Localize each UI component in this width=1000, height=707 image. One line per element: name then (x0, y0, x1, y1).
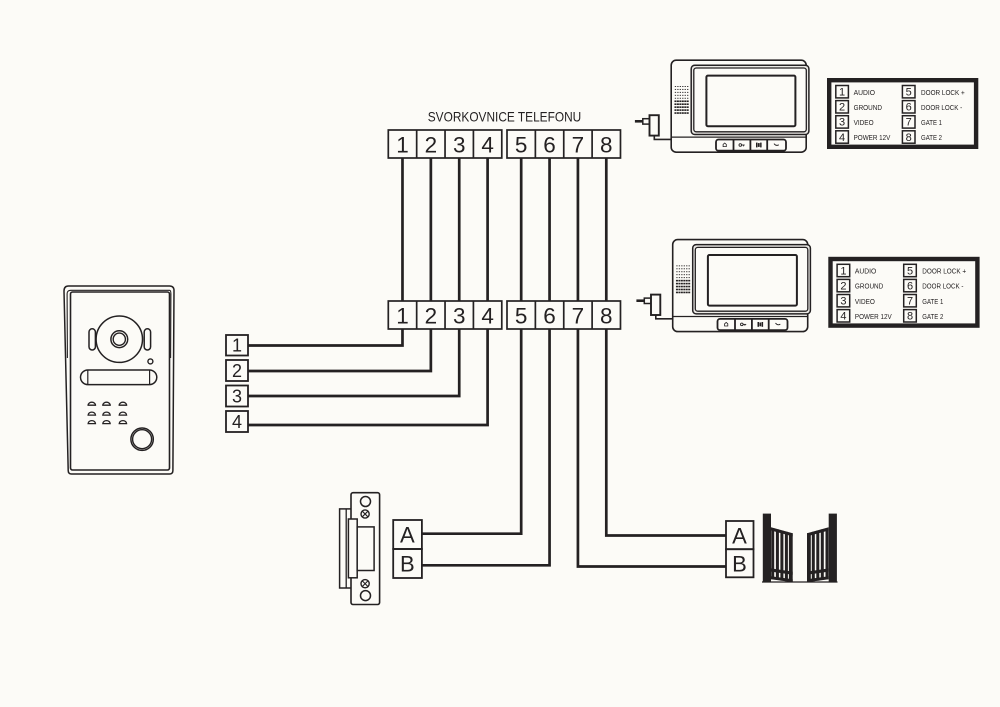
power adapter plug for monitor M1 (top) (635, 115, 659, 135)
gate: left leaf (771, 527, 793, 582)
svg-text:SVORKOVNICE TELEFONU: SVORKOVNICE TELEFONU (428, 110, 582, 125)
svg-text:8: 8 (600, 132, 613, 157)
monitor M2 (bottom): button icon key (741, 323, 747, 326)
door station left side slot (89, 329, 95, 350)
gate: right leaf (807, 527, 829, 582)
junction box 1 (door station terminal 1) (226, 335, 248, 356)
svg-text:2: 2 (840, 280, 846, 292)
wire bus terminal 4 (TB1 to TB2) (486, 158, 489, 301)
wire bus terminal 7 (TB1 to TB2) (577, 158, 580, 301)
svg-text:7: 7 (906, 117, 912, 129)
svg-text:5: 5 (907, 265, 913, 277)
svg-text:1: 1 (396, 132, 409, 157)
svg-text:4: 4 (839, 132, 845, 144)
door station outdoor unit: hood outline (64, 286, 174, 474)
legend L2 (bottom): pin 4 POWER 12V (837, 310, 892, 323)
monitor M1 (top): screen bezel (691, 65, 809, 134)
gate: right post (829, 514, 837, 583)
door station speaker holes 3x3 (88, 402, 127, 423)
door station front panel (71, 292, 170, 470)
svg-text:4: 4 (481, 303, 494, 328)
door station call button (131, 428, 153, 450)
svg-text:1: 1 (232, 336, 242, 356)
wire terminal 5 to door-lock A (422, 329, 521, 534)
junction box 4 (door station terminal 4) (226, 411, 248, 432)
monitor M1 (top): body (671, 60, 806, 152)
svg-text:6: 6 (543, 303, 556, 328)
svg-text:AUDIO: AUDIO (855, 267, 877, 276)
door-lock terminal box A (393, 520, 422, 549)
door-lock strike: left stack inner line (345, 509, 347, 588)
legend table L2 (bottom): frame (831, 259, 978, 326)
terminal block TB1 (top) cells 1-4 (388, 130, 501, 158)
svg-text:B: B (400, 552, 415, 577)
door-lock strike: bottom hole (361, 591, 371, 601)
legend L1 (top): pin 8 GATE 2 (902, 131, 942, 144)
legend L2 (bottom): pin 8 GATE 2 (904, 310, 944, 323)
monitor M2 (bottom): button strip (718, 319, 788, 330)
svg-text:GROUND: GROUND (854, 103, 883, 112)
svg-text:GROUND: GROUND (855, 282, 884, 291)
svg-text:8: 8 (907, 311, 913, 323)
wire bus terminal 2 (TB1 to TB2) (430, 158, 433, 301)
svg-text:GATE 1: GATE 1 (921, 118, 942, 127)
legend L2 (bottom): pin 1 AUDIO (837, 264, 876, 277)
svg-text:GATE 1: GATE 1 (922, 297, 943, 306)
svg-text:6: 6 (907, 280, 913, 292)
svg-text:A: A (400, 523, 415, 548)
monitor M1 (top): speaker grille (674, 86, 688, 114)
svg-text:A: A (732, 523, 747, 548)
door station LED dot (148, 359, 153, 364)
door-lock strike: top screw (361, 510, 369, 518)
junction box 3 (door station terminal 3) (226, 386, 248, 407)
svg-text:8: 8 (906, 132, 912, 144)
door station name plate window lines (87, 370, 89, 385)
monitor M2 (bottom): button icon bell (725, 322, 728, 326)
svg-text:4: 4 (232, 412, 242, 432)
wire terminal 4 to door-station box 4 (248, 329, 488, 425)
door station camera ring (96, 316, 142, 362)
monitor M2 (bottom): screen bezel (693, 245, 811, 314)
monitor M2 (bottom): button icon phone (776, 323, 781, 325)
svg-text:1: 1 (840, 265, 846, 277)
svg-text:6: 6 (906, 102, 912, 114)
wire terminal 2 to door-station box 2 (248, 329, 431, 371)
svg-text:7: 7 (572, 303, 585, 328)
svg-text:4: 4 (481, 132, 494, 157)
svg-text:DOOR LOCK -: DOOR LOCK - (921, 103, 963, 112)
svg-text:DOOR LOCK +: DOOR LOCK + (921, 88, 965, 97)
monitor M2 (bottom): screen (708, 255, 797, 306)
door-lock strike: keeper latch (348, 519, 357, 578)
svg-text:2: 2 (839, 102, 845, 114)
legend L2 (bottom): pin 3 VIDEO (837, 295, 875, 308)
svg-text:DOOR LOCK +: DOOR LOCK + (922, 267, 966, 276)
monitor M1 (top): button icon speak (756, 143, 762, 148)
svg-text:8: 8 (600, 303, 613, 328)
monitor M1 (top): button icon phone (774, 144, 779, 146)
door-lock strike: top hole (361, 497, 371, 507)
svg-text:POWER 12V: POWER 12V (855, 312, 892, 321)
wire terminal 7 to gate B (578, 329, 726, 567)
svg-text:2: 2 (425, 132, 438, 157)
wire bus terminal 8 (TB1 to TB2) (605, 158, 608, 301)
gate: ground line (762, 581, 838, 583)
svg-text:5: 5 (515, 303, 528, 328)
monitor M2 (bottom): body (673, 240, 808, 332)
monitor M2 (bottom): body seam (673, 316, 808, 318)
junction box 2 (door station terminal 2) (226, 360, 248, 381)
wire terminal 6 to door-lock B (422, 329, 550, 565)
svg-text:VIDEO: VIDEO (854, 118, 874, 127)
gate terminal box B (726, 549, 754, 577)
legend L1 (top): pin 1 AUDIO (836, 86, 875, 99)
legend L2 (bottom): pin 7 GATE 1 (904, 295, 944, 308)
legend L1 (top): pin 2 GROUND (836, 101, 883, 114)
legend table L1 (top): frame (829, 80, 976, 147)
monitor M1 (top): screen (706, 76, 795, 127)
gate: left post (763, 514, 771, 583)
door-lock strike: face plate (351, 493, 380, 605)
monitor M1 (top): button icon bell (723, 143, 726, 147)
terminal block TB1 (top) cells 5-8 (507, 130, 620, 158)
gate terminal box A (726, 521, 754, 549)
svg-text:3: 3 (453, 132, 466, 157)
door station name plate (81, 370, 157, 385)
monitor M2 (bottom): button icon speak (758, 322, 764, 327)
legend L1 (top): pin 5 DOOR LOCK + (902, 86, 965, 99)
svg-text:2: 2 (425, 303, 438, 328)
svg-text:AUDIO: AUDIO (854, 88, 876, 97)
door-lock strike: cavity (357, 527, 374, 571)
wire bus terminal 3 (TB1 to TB2) (458, 158, 461, 301)
wire bus terminal 1 (TB1 to TB2) (401, 158, 404, 301)
svg-text:B: B (732, 552, 747, 577)
svg-text:2: 2 (232, 361, 242, 381)
svg-text:6: 6 (543, 132, 556, 157)
svg-text:3: 3 (453, 303, 466, 328)
door station hood inner line (67, 290, 171, 358)
power adapter plug for monitor M2 (bottom) (636, 295, 660, 315)
monitor M2 (bottom): speaker grille (676, 265, 690, 293)
svg-text:5: 5 (906, 87, 912, 99)
svg-text:1: 1 (396, 303, 409, 328)
svg-text:3: 3 (232, 386, 242, 406)
door station right side slot (144, 329, 150, 350)
wire terminal 8 to gate A (606, 329, 726, 536)
svg-text:DOOR LOCK -: DOOR LOCK - (922, 282, 964, 291)
svg-text:GATE 2: GATE 2 (922, 312, 943, 321)
svg-text:3: 3 (839, 117, 845, 129)
door-lock terminal box B (393, 549, 422, 578)
svg-text:1: 1 (839, 87, 845, 99)
wire bus terminal 6 (TB1 to TB2) (548, 158, 551, 301)
svg-text:4: 4 (840, 311, 846, 323)
legend L1 (top): pin 7 GATE 1 (902, 116, 942, 129)
svg-text:5: 5 (515, 132, 528, 157)
wire bus terminal 5 (TB1 to TB2) (520, 158, 523, 301)
power cord for monitor M2 (bottom) (656, 315, 673, 319)
legend L1 (top): pin 6 DOOR LOCK - (902, 101, 962, 114)
wire terminal 3 to door-station box 3 (248, 329, 459, 396)
legend L1 (top): pin 4 POWER 12V (836, 131, 891, 144)
wire terminal 1 to door-station box 1 (248, 329, 402, 346)
door-lock strike: bottom screw (361, 580, 369, 588)
monitor M1 (top): button icon key (739, 144, 745, 147)
terminal block TB2 (bottom) cells 5-8 (507, 301, 620, 329)
power cord for monitor M1 (top) (654, 136, 671, 140)
door-lock strike: left stack outer plate (340, 509, 355, 588)
legend L2 (bottom): pin 6 DOOR LOCK - (904, 279, 964, 292)
svg-text:7: 7 (572, 132, 585, 157)
monitor M1 (top): button strip (716, 140, 786, 151)
svg-text:3: 3 (840, 296, 846, 308)
svg-text:POWER 12V: POWER 12V (854, 133, 891, 142)
svg-text:VIDEO: VIDEO (855, 297, 875, 306)
svg-text:7: 7 (907, 296, 913, 308)
legend L2 (bottom): pin 2 GROUND (837, 279, 884, 292)
legend L2 (bottom): pin 5 DOOR LOCK + (904, 264, 967, 277)
door station camera lens (111, 331, 128, 348)
svg-text:GATE 2: GATE 2 (921, 133, 942, 142)
monitor M1 (top): body seam (671, 136, 806, 138)
legend L1 (top): pin 3 VIDEO (836, 116, 874, 129)
terminal block TB2 (bottom) cells 1-4 (388, 301, 501, 329)
